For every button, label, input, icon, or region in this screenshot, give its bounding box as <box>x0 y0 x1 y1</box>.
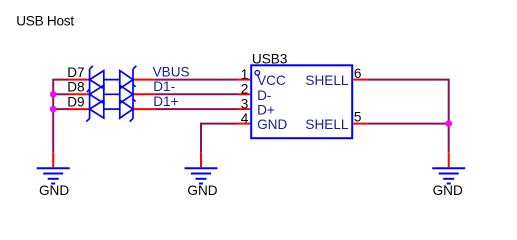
pin 6 (SHELL) <box>353 79 367 81</box>
junction dot at D8 row <box>50 91 57 98</box>
svg-text:GND: GND <box>433 183 463 198</box>
svg-text:GND: GND <box>187 183 217 198</box>
wire: pin6 to right vertical <box>367 79 448 81</box>
svg-text:1: 1 <box>241 67 249 82</box>
TVS diode D8 (row 2, bidirectional pair) <box>68 85 155 103</box>
svg-text:D-: D- <box>257 88 271 103</box>
svg-text:GND: GND <box>39 183 69 198</box>
wire: right vertical down to GND <box>448 79 450 153</box>
wire: VBUS net from D7 to USB3 pin1 <box>155 79 238 81</box>
wire: D1- net from D8 to USB3 pin2 <box>155 93 238 95</box>
TVS diode D7 (row 1, bidirectional pair) <box>68 66 155 89</box>
wire: pin4 to middle ground, horizontal <box>201 123 238 125</box>
svg-text:VBUS: VBUS <box>153 64 190 79</box>
ground symbol left <box>37 152 70 198</box>
svg-text:6: 6 <box>354 66 362 81</box>
wire: middle ground vertical drop <box>200 123 202 153</box>
svg-text:D9: D9 <box>67 94 84 109</box>
pin 1 (VCC) <box>238 79 251 81</box>
svg-text:GND: GND <box>257 117 287 132</box>
svg-text:5: 5 <box>354 109 362 124</box>
svg-text:D1-: D1- <box>153 79 175 94</box>
svg-text:SHELL: SHELL <box>305 117 349 132</box>
svg-text:2: 2 <box>241 82 249 97</box>
svg-text:D+: D+ <box>257 103 275 118</box>
connector USB3 body <box>251 65 352 138</box>
wire: row2 stub from left vertical to D8 <box>53 93 68 95</box>
TVS diode D9 (row 3, bidirectional pair) <box>68 100 155 122</box>
ground symbol middle <box>185 152 218 198</box>
pin 4 (GND) <box>238 123 251 125</box>
wire: pin5 to right vertical <box>367 123 448 125</box>
svg-text:USB3: USB3 <box>252 51 288 66</box>
pin 1 marker circle <box>255 71 260 76</box>
svg-text:USB Host: USB Host <box>16 14 74 29</box>
wire: row1 stub from left vertical to D7 <box>52 79 68 81</box>
svg-text:D7: D7 <box>67 65 84 80</box>
svg-text:4: 4 <box>241 111 249 126</box>
svg-text:SHELL: SHELL <box>305 73 349 88</box>
pin 2 (D-) <box>238 93 251 95</box>
svg-text:D8: D8 <box>67 80 84 95</box>
svg-text:VCC: VCC <box>257 73 286 88</box>
ground symbol right <box>432 152 465 198</box>
wire: D1+ net from D9 to USB3 pin3 <box>155 108 238 110</box>
svg-text:D1+: D1+ <box>153 94 178 109</box>
junction dot at D9 row <box>50 106 57 113</box>
pin 3 (D+) <box>238 108 251 110</box>
wire: row3 stub from left vertical to D9 <box>53 108 68 110</box>
svg-text:3: 3 <box>241 97 249 112</box>
wire: left vertical net from D7 row down to GND <box>52 80 54 153</box>
pin 5 (SHELL) <box>353 123 367 125</box>
junction dot right <box>445 120 452 127</box>
